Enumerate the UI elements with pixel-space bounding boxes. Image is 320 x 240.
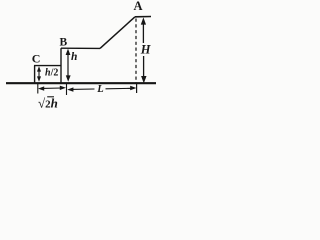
svg-text:H: H bbox=[140, 43, 152, 57]
svg-text:h/2: h/2 bbox=[45, 68, 58, 79]
svg-text:√2h: √2h bbox=[38, 96, 58, 111]
wire bbox=[60, 48, 62, 83]
svg-text:C: C bbox=[32, 51, 41, 65]
wire bbox=[135, 16, 151, 18]
wire ext bbox=[37, 84, 39, 94]
svg-text:A: A bbox=[134, 0, 143, 13]
wire h arrow bbox=[66, 49, 71, 82]
wire bbox=[34, 65, 61, 67]
wire h/2 arrow bbox=[37, 66, 41, 82]
wire L dimension bbox=[67, 86, 136, 92]
svg-text:B: B bbox=[60, 36, 68, 48]
wire bbox=[136, 84, 138, 94]
wire bbox=[100, 17, 135, 49]
wire bbox=[61, 47, 100, 49]
ground bbox=[6, 82, 156, 84]
wire sqrt(2)h dimension bbox=[38, 86, 66, 91]
svg-text:L: L bbox=[96, 84, 103, 95]
wire bbox=[34, 66, 36, 83]
wire H arrow bbox=[141, 17, 147, 83]
wire bbox=[135, 19, 137, 84]
svg-text:h: h bbox=[71, 51, 77, 63]
wire ext bbox=[66, 84, 68, 96]
